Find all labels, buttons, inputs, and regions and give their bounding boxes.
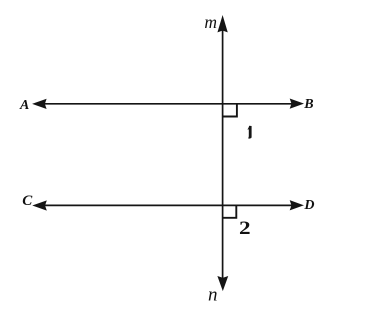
arrowhead up (line m) [218, 17, 227, 32]
svg-text:B: B [303, 97, 313, 112]
arrowhead left (toward C) [34, 201, 46, 210]
arrowhead down (line n) [218, 277, 227, 290]
wire line A-B horizontal [43, 103, 293, 105]
wire line m-n vertical transversal [222, 28, 224, 280]
arrowhead right (toward B) [291, 99, 303, 108]
svg-text:C: C [22, 193, 33, 209]
arrowhead left (toward A) [34, 100, 46, 109]
arrowhead right (toward D) [291, 201, 303, 210]
svg-text:A: A [19, 98, 29, 113]
svg-text:2: 2 [239, 217, 251, 239]
right-angle marker at intersection 1 [223, 104, 237, 116]
svg-text:D: D [303, 198, 314, 213]
wire line C-D horizontal [43, 204, 293, 206]
angle label 1 [247, 126, 251, 139]
svg-text:m: m [204, 12, 217, 32]
svg-text:n: n [208, 285, 218, 306]
right-angle marker at intersection 2 [223, 206, 237, 218]
